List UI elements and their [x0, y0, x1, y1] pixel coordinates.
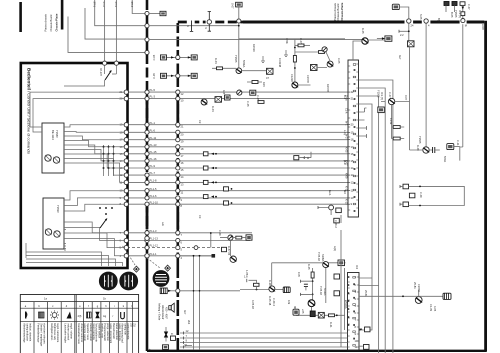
wire row PL-5 — [127, 91, 348, 93]
IC2 Y1520 block — [348, 273, 360, 351]
connector on screen B — [176, 180, 180, 184]
dashed screen stub — [185, 344, 192, 347]
vertical chain x=312.6 — [312, 268, 314, 300]
svg-text:L-ny: L-ny — [343, 130, 347, 136]
svg-text:C1218: C1218 — [290, 74, 294, 82]
wire nested corners from chassis to screen line — [68, 17, 146, 53]
ground stubs — [284, 50, 288, 57]
svg-text:B(2): B(2) — [437, 18, 441, 23]
connector PL-3 on box border — [124, 96, 128, 100]
component rect loop x405-464 y186-209 — [403, 184, 409, 189]
svg-text:500kA: 500kA — [242, 60, 246, 68]
resistor R6 — [393, 137, 400, 140]
component box X1 — [267, 68, 274, 74]
svg-text:C2: C2 — [198, 120, 202, 124]
svg-text:PL-7: PL-7 — [150, 171, 156, 175]
junction resistor — [256, 289, 258, 291]
resistor B x=224 — [224, 187, 229, 191]
chassis label Chassis-Platte — [44, 13, 59, 31]
component box B3 — [215, 97, 222, 103]
svg-text:Y-05.18: Y-05.18 — [319, 286, 323, 295]
arrow on feed wire — [462, 7, 465, 10]
svg-text:13.5k: 13.5k — [389, 118, 393, 125]
small boxes right of IC2 — [365, 327, 371, 332]
svg-text:Chassis-Platte: Chassis-Platte — [55, 13, 59, 31]
connector on screen B — [176, 97, 180, 101]
transistor Q3 — [327, 61, 333, 67]
screen line A (vertical dashed x=147) — [146, 0, 149, 265]
component left — [161, 73, 167, 78]
svg-text:PL-11: PL-11 — [150, 136, 157, 140]
connector on screen A — [145, 138, 149, 142]
wire row PL-13 — [127, 146, 348, 148]
legend symbols — [26, 312, 28, 319]
connector on dashed row — [194, 246, 198, 250]
wire verticals to control unit border — [104, 0, 106, 62]
svg-text:PL1-10: PL1-10 — [150, 200, 159, 204]
Tl component — [171, 336, 176, 340]
svg-text:brd: brd — [343, 190, 347, 194]
connector PL-1 on box border — [124, 123, 128, 127]
loop wires block1 top — [30, 92, 125, 127]
svg-text:indicat. sintonia: indicat. sintonia — [29, 323, 33, 341]
junction dots bottom rows — [193, 290, 195, 292]
svg-text:PL-3: PL-3 — [150, 95, 156, 99]
svg-text:bw-1: bw-1 — [328, 190, 332, 196]
resistor pair row 154 — [203, 152, 208, 156]
wire row PL-11 — [127, 139, 348, 141]
svg-text:regol. volume: regol. volume — [70, 323, 74, 339]
svg-text:R-05: R-05 — [307, 264, 311, 270]
wire stubs top rows — [149, 25, 239, 27]
svg-text:500kA: 500kA — [323, 288, 327, 296]
wire bottom row 1 — [180, 332, 348, 334]
connector on screen A — [145, 173, 149, 177]
wire row PL1-1 — [127, 255, 213, 257]
svg-text:PL-13: PL-13 — [150, 143, 157, 147]
wire row PL1-10 — [127, 203, 348, 205]
connector PL1-1 on box border — [124, 254, 128, 258]
resistor R7 — [258, 101, 264, 104]
svg-text:In-1: In-1 — [345, 121, 349, 126]
svg-text:25.81: 25.81 — [364, 290, 368, 297]
screen line B solid segments — [176, 101, 179, 230]
resistor R3 — [295, 44, 310, 46]
transistor Q8 — [229, 240, 231, 256]
svg-text:W500A: W500A — [344, 300, 348, 309]
component right — [191, 55, 197, 60]
svg-text:4-05: 4-05 — [433, 306, 437, 312]
box pair left of Q11 — [293, 309, 299, 315]
dashed pointer link — [123, 246, 135, 265]
wire row 255.8 extension — [180, 255, 213, 257]
connector on screen B — [176, 196, 180, 200]
stub with tick — [399, 30, 409, 32]
svg-text:PL1-1: PL1-1 — [150, 252, 157, 256]
wire bottom link — [180, 290, 240, 292]
svg-text:R1519: R1519 — [252, 44, 256, 52]
connector PL-7 on box border — [124, 173, 128, 177]
resistor B x=224 — [224, 201, 229, 205]
connector on screen A — [145, 254, 149, 258]
component box on feed wire — [461, 12, 465, 16]
component left — [161, 55, 167, 60]
svg-text:C3: C3 — [198, 215, 202, 219]
svg-text:Chassis Board: Chassis Board — [49, 14, 53, 31]
knob VR3 — [153, 270, 170, 287]
svg-text:40-107: 40-107 — [99, 68, 103, 77]
connector on screen top — [237, 19, 241, 23]
svg-text:1N5: 1N5 — [297, 272, 301, 277]
wire row PL1-3 — [127, 232, 252, 234]
svg-text:IC2: IC2 — [355, 265, 359, 270]
connector PL-5 on box border — [124, 90, 128, 94]
wire option row — [160, 56, 196, 58]
connector circle w arrow — [237, 90, 242, 95]
wire row PL-3 — [127, 98, 348, 100]
svg-text:PL-5: PL-5 — [150, 88, 156, 92]
screen line B (vertical dashed x=177.8) — [177, 23, 180, 262]
svg-text:25-81: 25-81 — [413, 282, 417, 289]
connector circles on box top border — [103, 61, 107, 65]
svg-text:Piastra chassis: Piastra chassis — [44, 13, 48, 31]
svg-text:C-11: C-11 — [456, 140, 460, 146]
connector on screen B — [176, 130, 180, 134]
keyboard matrix verticals — [104, 145, 114, 176]
wire row PL1-6 — [127, 197, 348, 199]
resistor R2 — [242, 70, 266, 72]
connector on screen B — [176, 145, 180, 149]
svg-text:C-09.4: C-09.4 — [272, 298, 276, 306]
wire row PL-9 — [127, 167, 348, 169]
svg-text:2k2: 2k2 — [187, 320, 191, 325]
svg-text:ST-1: ST-1 — [93, 2, 97, 8]
wire bottom row 2 — [180, 337, 348, 339]
matrix dots block2 — [99, 207, 113, 215]
wire stub vertical 210.8 — [210, 233, 212, 248]
wire vertical to Q1 — [238, 23, 240, 68]
resistor R5 — [391, 105, 393, 123]
svg-text:ZU: ZU — [132, 323, 136, 327]
legend table frame — [20, 295, 138, 353]
transistor Q9 — [323, 262, 329, 268]
transistor Q7 — [201, 99, 207, 105]
svg-text:PL-9: PL-9 — [150, 164, 156, 168]
hourglass symbol — [164, 332, 168, 338]
feeder verticals into IC2 left — [326, 230, 345, 347]
svg-text:PL-15: PL-15 — [150, 150, 157, 154]
wire bus IC1 right to bottom — [359, 104, 373, 330]
wire drop to row290 — [240, 263, 272, 290]
connector on screen A — [145, 202, 149, 206]
legend table grid — [20, 295, 138, 353]
connector on screen B — [176, 238, 180, 242]
connector PL1-10 on box border — [124, 202, 128, 206]
connector on screen B — [176, 123, 180, 127]
diamond pointer 1 — [133, 266, 140, 273]
svg-text:S-05: S-05 — [419, 14, 423, 20]
svg-text:Y1505: Y1505 — [377, 90, 381, 98]
connector on screen A — [145, 90, 149, 94]
component box K2 — [385, 36, 392, 41]
component above screen line — [236, 2, 243, 7]
IC2 interior glyphs — [353, 277, 356, 279]
frame right border — [484, 21, 487, 351]
svg-text:C-07: C-07 — [388, 92, 392, 98]
wire row PL1-12 — [127, 247, 222, 249]
connector on screen A — [145, 145, 149, 149]
svg-text:B-05: B-05 — [450, 12, 454, 18]
component cluster top edge right — [444, 2, 449, 6]
svg-text:C-09: C-09 — [218, 230, 222, 236]
svg-text:C1578: C1578 — [306, 75, 310, 83]
transistor Q11 — [308, 300, 315, 307]
wire bottom row 3 — [180, 342, 348, 344]
transistor Q6 — [423, 147, 429, 153]
dark box B9 — [310, 311, 315, 317]
connector on screen A — [145, 166, 149, 170]
resistor R10 — [212, 67, 236, 69]
svg-text:BE-1114: BE-1114 — [51, 130, 55, 140]
svg-text:C-09: C-09 — [419, 192, 423, 198]
connector PL1-8 on box border — [124, 180, 128, 184]
IC2 left pin dots — [348, 276, 350, 278]
svg-text:Chassis-Platte: Chassis-Platte — [340, 2, 344, 20]
svg-text:4u7: 4u7 — [398, 55, 402, 60]
svg-text:1-05: 1-05 — [245, 270, 249, 276]
resistor pair row 197 — [203, 195, 208, 199]
svg-text:10k: 10k — [287, 300, 291, 305]
wire vertical from connector 4 down to Q6 — [425, 23, 427, 147]
knob VR2 — [119, 272, 138, 291]
svg-text:R15: R15 — [262, 82, 266, 87]
connector on screen A — [145, 159, 149, 163]
component box X2 — [311, 65, 318, 71]
wire row PL1-8 — [127, 181, 348, 183]
svg-text:C-07: C-07 — [299, 38, 303, 44]
svg-text:PL1-12: PL1-12 — [150, 244, 159, 248]
component box K3 hatch — [408, 41, 415, 47]
gaps in heavy line at connectors — [405, 19, 414, 24]
connector with stubs on screen top line — [206, 19, 213, 24]
svg-text:C-09.2: C-09.2 — [334, 220, 338, 228]
component K1 top — [392, 4, 399, 9]
component box B7 — [338, 260, 345, 266]
fan wires block1 — [64, 125, 125, 127]
svg-text:500A: 500A — [443, 156, 447, 162]
svg-text:regol. luminosita: regol. luminosita — [56, 323, 60, 342]
pot circle — [322, 47, 327, 52]
connector on screen A — [145, 152, 149, 156]
svg-text:Bedienteil / Control Unit / Se: Bedienteil / Control Unit / Sezione di c… — [27, 68, 32, 155]
speaker symbol — [169, 306, 171, 310]
break marker on screen top line — [188, 19, 194, 24]
svg-text:K-13: K-13 — [345, 199, 349, 205]
connector PL1-6 on box border — [124, 196, 128, 200]
svg-text:Piastra chassis: Piastra chassis — [333, 2, 337, 20]
connector on screen B — [176, 189, 180, 193]
svg-text:ricevitore telecom.: ricevitore telecom. — [42, 323, 46, 344]
resistor R9 — [329, 314, 335, 317]
wire row PL-15 — [127, 153, 348, 155]
svg-text:Y1505: Y1505 — [234, 55, 238, 63]
connector PL-11 on box border — [124, 138, 128, 142]
svg-text:4(f): 4(f) — [78, 314, 82, 318]
svg-text:470k: 470k — [285, 38, 289, 44]
IC1 interior glyphs — [353, 64, 356, 66]
svg-text:C-05: C-05 — [246, 101, 250, 107]
matrix junction dots — [103, 146, 115, 169]
svg-text:X-05: X-05 — [337, 58, 341, 64]
frame bottom border — [147, 350, 487, 352]
connector PL-15 on box border — [124, 152, 128, 156]
component B5 — [250, 90, 256, 95]
transistor Q5 — [388, 98, 394, 104]
connector box B8 — [283, 287, 290, 293]
svg-text:4-05.18: 4-05.18 — [251, 300, 255, 309]
wire row PL1-13 — [127, 240, 250, 242]
svg-text:4n7: 4n7 — [183, 310, 187, 315]
resistor R4 — [295, 51, 326, 53]
svg-text:PL1-3: PL1-3 — [150, 229, 157, 233]
wire verticals bottom center — [194, 256, 200, 350]
connector on screen A — [145, 180, 149, 184]
keypad block Y1580 — [42, 123, 64, 173]
loop wires block2 bottom nested — [26, 244, 102, 267]
connector on screen A — [145, 97, 149, 101]
svg-text:C-05: C-05 — [152, 73, 156, 79]
wire y=38.8 long — [239, 38, 345, 40]
transistor Q4 — [362, 38, 368, 44]
switch S1 inside box top — [105, 66, 117, 75]
connector PL-13 on box border — [124, 145, 128, 149]
wire row PL1-5 — [127, 190, 348, 192]
control unit enclosure Bedienteil — [21, 63, 128, 268]
transistor Q2 — [292, 82, 298, 88]
transistor Q12 — [415, 297, 422, 304]
wire stubs IC1 right — [359, 108, 367, 136]
connector PL-9 on box border — [124, 166, 128, 170]
connector on screen A — [145, 130, 149, 134]
pair row 158 — [294, 156, 299, 160]
knob VR1 — [99, 272, 118, 291]
connector on screen B — [176, 166, 180, 170]
connector on screen A — [145, 231, 149, 235]
chassis label mid-top — [333, 2, 344, 20]
connector circles screen line A top — [145, 11, 149, 15]
fan wires block2 — [64, 191, 125, 200]
svg-text:Ag: Ag — [103, 314, 107, 318]
IC2 right exits — [359, 278, 379, 286]
wire row PL-6 — [127, 131, 348, 133]
component box B2 — [447, 144, 454, 150]
wire row PL-7 — [127, 174, 348, 176]
svg-text:A(2): A(2) — [333, 246, 337, 251]
component B4 — [225, 95, 231, 100]
connector on screen B — [176, 254, 180, 258]
svg-text:C-07: C-07 — [467, 4, 471, 10]
connector on screen B — [176, 246, 180, 250]
svg-text:R-21: R-21 — [329, 322, 333, 328]
small comp — [222, 247, 227, 251]
connector box with arrow — [160, 288, 167, 294]
svg-text:C-05: C-05 — [152, 54, 156, 60]
svg-text:S-07: S-07 — [231, 3, 235, 9]
diamond pointer 2 — [164, 265, 171, 272]
label Bedienteil / Control Unit / Sezione di comando — [27, 68, 32, 155]
connector on screen A — [145, 246, 149, 250]
svg-text:M: M — [465, 24, 467, 28]
capacitor C3 — [433, 147, 435, 153]
svg-text:R-05.18: R-05.18 — [268, 296, 272, 306]
connector on heavy line right — [460, 19, 467, 24]
svg-text:1N4148: 1N4148 — [278, 58, 282, 68]
connector PL1-3 on box border — [124, 231, 128, 235]
svg-text:R-09: R-09 — [416, 145, 420, 151]
wire option row — [160, 75, 196, 77]
transistor Q10 — [269, 286, 275, 292]
connector on screen B — [176, 159, 180, 163]
screen line top horizontal y=22 — [178, 21, 243, 24]
svg-text:C2000: C2000 — [417, 284, 421, 292]
capacitor C4 — [304, 284, 308, 286]
connector on screen B — [176, 152, 180, 156]
wire bottom row 4 — [180, 346, 348, 348]
connector on screen B — [176, 90, 180, 94]
bottom loop row — [296, 307, 345, 316]
component right — [191, 73, 197, 78]
connector circles above knobs on screen A — [145, 236, 149, 240]
svg-text:Anfang + Ende: Anfang + Ende — [158, 303, 162, 321]
svg-text:PL1-8: PL1-8 — [150, 179, 157, 183]
component box near IC feeder — [334, 218, 340, 223]
connector PL-6 on box border — [124, 130, 128, 134]
connector on screen A — [145, 189, 149, 193]
svg-text:+05: +05 — [301, 309, 305, 314]
connector on screen B — [176, 231, 180, 235]
svg-text:PL-1: PL-1 — [150, 121, 156, 125]
svg-text:PL1-5: PL1-5 — [150, 187, 157, 191]
connector on screen B — [176, 173, 180, 177]
svg-text:pLst: pLst — [343, 160, 347, 165]
connector PL1-12 on box border — [124, 245, 128, 249]
svg-text:ST-4: ST-4 — [130, 2, 134, 8]
box B10 — [318, 312, 324, 318]
svg-text:PL-6: PL-6 — [150, 128, 156, 132]
wire row PL-1 — [127, 124, 348, 126]
connector circles on heavy top line — [407, 19, 411, 23]
connector on screen A — [145, 123, 149, 127]
svg-text:S1/BA: S1/BA — [321, 254, 325, 262]
svg-text:Abstimmlauf: Abstimmlauf — [161, 305, 165, 320]
svg-text:C1-09: C1-09 — [429, 304, 433, 312]
svg-text:C-05: C-05 — [256, 95, 260, 101]
resistor on row 13.5 — [160, 11, 166, 15]
resistor R8 — [236, 236, 242, 239]
svg-text:Y1590: Y1590 — [56, 205, 60, 213]
svg-text:Y-05.18: Y-05.18 — [317, 252, 321, 261]
wire y=262.8 — [272, 262, 346, 264]
svg-text:PL-16: PL-16 — [150, 157, 157, 161]
svg-text:R1578: R1578 — [326, 84, 330, 92]
svg-text:R-04: R-04 — [211, 106, 215, 112]
resistor pair row 168 — [203, 166, 208, 170]
keypad block 2 — [43, 198, 64, 249]
svg-text:R-57.04: R-57.04 — [227, 246, 231, 256]
IC1 pin ticks — [348, 64, 359, 210]
svg-text:R-18: R-18 — [268, 280, 272, 286]
chassis boundary bar left — [19, 2, 22, 32]
